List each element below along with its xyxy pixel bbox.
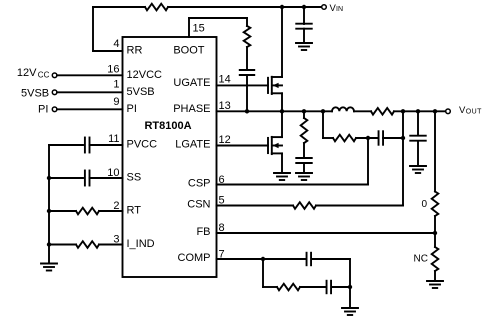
svg-text:4: 4 <box>113 38 119 50</box>
svg-text:16: 16 <box>107 64 119 76</box>
svg-text:13: 13 <box>219 100 231 112</box>
svg-text:FB: FB <box>196 226 210 238</box>
svg-text:I_IND: I_IND <box>127 238 155 250</box>
svg-text:CSN: CSN <box>187 199 210 211</box>
svg-text:12: 12 <box>219 134 231 146</box>
svg-text:COMP: COMP <box>178 252 211 264</box>
svg-text:12V: 12V <box>17 67 37 79</box>
svg-text:OUT: OUT <box>466 108 482 115</box>
svg-text:1: 1 <box>113 79 119 91</box>
svg-text:5VSB: 5VSB <box>127 86 155 98</box>
svg-text:SS: SS <box>127 171 142 183</box>
svg-text:IN: IN <box>336 6 343 13</box>
svg-text:CC: CC <box>38 70 50 79</box>
svg-text:2: 2 <box>113 200 119 212</box>
svg-text:14: 14 <box>219 74 231 86</box>
svg-text:11: 11 <box>108 133 119 145</box>
svg-text:UGATE: UGATE <box>173 77 210 89</box>
svg-text:PI: PI <box>38 104 48 116</box>
svg-text:CSP: CSP <box>188 178 211 190</box>
svg-text:NC: NC <box>414 254 428 265</box>
svg-text:15: 15 <box>193 23 205 35</box>
svg-text:5VSB: 5VSB <box>21 87 49 99</box>
svg-text:9: 9 <box>113 96 119 108</box>
svg-text:PI: PI <box>127 103 137 115</box>
svg-text:PHASE: PHASE <box>173 103 210 115</box>
svg-text:12VCC: 12VCC <box>127 69 163 81</box>
svg-text:0: 0 <box>421 199 427 210</box>
svg-text:RR: RR <box>127 45 143 57</box>
svg-text:RT8100A: RT8100A <box>144 120 191 132</box>
svg-text:PVCC: PVCC <box>127 139 158 151</box>
svg-text:LGATE: LGATE <box>175 138 210 150</box>
svg-text:RT: RT <box>127 204 142 216</box>
svg-text:BOOT: BOOT <box>173 45 204 57</box>
